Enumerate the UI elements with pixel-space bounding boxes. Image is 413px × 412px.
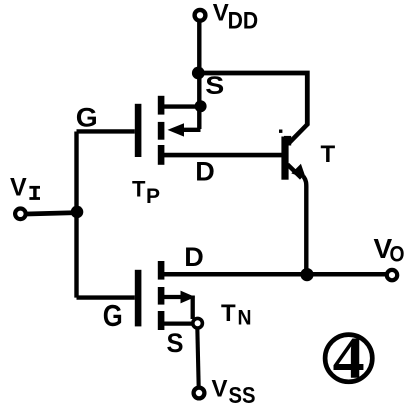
svg-text:P: P <box>146 185 160 208</box>
svg-text:S: S <box>167 328 184 358</box>
svg-text:4: 4 <box>333 325 365 391</box>
svg-text:N: N <box>238 307 252 330</box>
svg-text:DD: DD <box>228 7 259 34</box>
svg-text:SS: SS <box>229 382 256 408</box>
svg-text:D: D <box>195 156 215 186</box>
svg-text:G: G <box>103 298 123 333</box>
svg-text:T: T <box>321 141 336 168</box>
svg-text:V: V <box>10 174 27 202</box>
svg-text:T: T <box>221 300 236 327</box>
svg-text:T: T <box>132 177 146 202</box>
svg-text:G: G <box>76 102 98 132</box>
svg-text:D: D <box>184 242 204 272</box>
svg-text:V: V <box>212 375 228 402</box>
svg-text:O: O <box>390 241 405 266</box>
svg-text:S: S <box>205 72 224 100</box>
svg-text:V: V <box>213 0 229 26</box>
